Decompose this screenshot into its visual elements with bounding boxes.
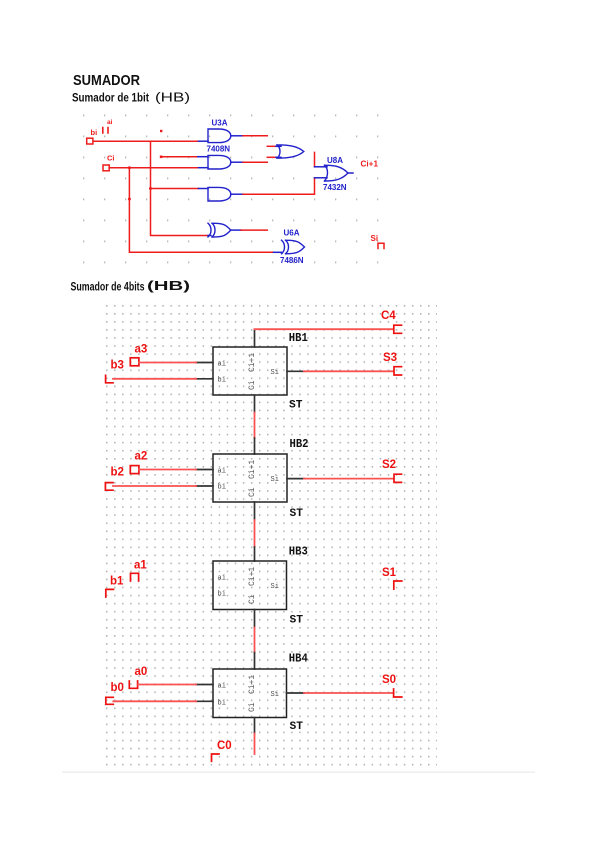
wire b0 [113,700,196,702]
svg-text:a1: a1 [134,560,147,572]
HB3 bottom stub [254,610,256,628]
OR gate middle [277,145,304,158]
wire gate4 output red [241,229,267,231]
wire gate4 output blue [231,229,241,231]
HB4 bottom stub [254,718,256,734]
svg-text:HB1: HB1 [289,331,308,345]
svg-text:ai: ai [218,361,226,369]
wire U8A top blue stub [315,166,328,168]
HB3 top stub [254,547,256,561]
connector b2 [105,483,113,491]
wire gate2 output red [243,161,267,163]
wire U3A output [231,135,243,137]
wire S2 [304,478,394,480]
wire U8A output stub [348,172,353,174]
svg-text:b2: b2 [111,467,124,479]
svg-text:C4: C4 [381,310,396,322]
connector Si [378,243,384,248]
svg-text:bi: bi [91,128,98,137]
HB4 block [213,669,287,718]
wire gate3 output red to U8A [243,178,315,194]
connector Ci [103,165,109,171]
svg-text:b3: b3 [111,360,124,372]
wire bi to U3A [94,140,199,142]
svg-text:Si: Si [271,583,279,591]
svg-text:Ci+1: Ci+1 [248,353,257,372]
HB4 top stub [254,653,256,670]
svg-text:ST: ST [290,721,304,733]
svg-text:S2: S2 [382,459,396,471]
svg-text:S1: S1 [382,567,397,579]
connector S2 [394,474,402,482]
XOR gate 4 [208,223,231,237]
svg-text:ai: ai [218,468,226,476]
HB1 b stub [196,378,213,380]
svg-text:Ci: Ci [248,380,257,390]
grid area schematic 2 [102,301,437,768]
HB1 Si stub [287,370,304,372]
connector ai [103,128,108,133]
wire HB2-HB3 [254,520,256,547]
HB4 Si stub [287,692,305,694]
svg-text:bi: bi [218,484,226,492]
connector S3 [394,367,402,375]
svg-text:Si: Si [271,476,279,484]
stray junction dot [160,130,162,132]
subtitle Sumador de 1bit (HB) [72,90,190,105]
wire gate3 output [231,193,243,195]
wire HB3-HB4 [254,628,256,653]
svg-text:b1: b1 [110,576,124,588]
horizontal rule bottom [62,772,535,773]
wire gate2 top blue stub [198,156,208,158]
svg-text:7432N: 7432N [323,183,347,192]
svg-text:Si: Si [371,234,379,243]
wire gate3 input blue stub [199,188,209,190]
svg-text:ai: ai [107,119,113,126]
svg-text:ST: ST [290,508,304,520]
AND gate 3 [208,187,231,201]
wire or-gate top input blue [276,145,281,147]
svg-text:bi: bi [218,700,226,708]
connector a2 [130,466,139,474]
wire Ci blue stub [199,167,209,169]
connector b3 [106,375,113,383]
wire below HB4 [254,734,256,755]
wire Ci vertical to U6A [129,168,273,253]
svg-text:C0: C0 [217,740,232,752]
svg-text:Ci+1: Ci+1 [248,460,257,479]
wire a2 [139,469,196,471]
svg-text:(HB): (HB) [147,278,190,293]
wire vertical branch x150 [151,141,209,235]
connector b1 [106,589,114,597]
wire Ci to gate2 [109,167,198,169]
wire gate2 output [231,161,243,163]
subtitle Sumador de 4bits (HB) [71,278,191,293]
wire U3A output red [243,135,267,137]
HB2 a stub [196,469,213,471]
connector C4 [394,325,402,333]
svg-text:Ci: Ci [248,594,257,604]
svg-text:S3: S3 [383,352,397,364]
wire C4 [255,328,394,330]
wire or-gate top input [267,145,276,147]
connector a3 [130,358,139,366]
wire into U8A top [314,152,316,166]
svg-text:ST: ST [290,615,304,627]
connector bi [87,138,93,144]
HB2 top stub [254,438,256,454]
junction Ci branch [128,166,131,169]
HB2 block [213,454,287,502]
wire U8A bottom blue stub [315,177,328,179]
wire S0 [304,692,394,694]
svg-text:Ci: Ci [248,702,257,712]
HB1 top pin stub [254,330,256,347]
wire a3 [139,362,196,364]
wire bi blue stub [199,140,209,142]
connector S0 [394,689,402,697]
svg-text:ai: ai [218,575,226,583]
svg-text:ai: ai [218,683,226,691]
OR gate U8A [325,165,349,181]
svg-text:U8A: U8A [327,156,343,165]
svg-text:U3A: U3A [212,119,228,128]
svg-text:SUMADOR: SUMADOR [73,72,140,89]
svg-text:Ci+1: Ci+1 [361,160,379,169]
junction at gate3 branch [149,187,152,190]
svg-text:Si: Si [271,691,279,699]
svg-text:a0: a0 [135,666,148,678]
svg-text:Ci: Ci [107,154,115,163]
svg-text:7486N: 7486N [280,256,304,265]
HB3 block [213,561,287,610]
connector S1 [394,581,402,589]
HB2 bottom stub [254,502,256,520]
svg-text:Sumador de 4bits: Sumador de 4bits [71,280,145,294]
wire S3 [304,370,394,372]
svg-text:S0: S0 [382,674,396,686]
connector a0 [129,681,137,688]
wire or-gate bottom input [267,156,276,158]
wire HB1-HB2 [254,413,256,439]
svg-text:Si: Si [271,369,279,377]
svg-text:bi: bi [218,377,226,385]
svg-text:7408N: 7408N [207,145,231,154]
wire to gate2 top input [161,156,198,158]
wire a0 [138,684,196,686]
wire b3 [113,378,196,380]
svg-text:Ci+1: Ci+1 [248,675,257,694]
wire or-gate bottom input blue [276,156,281,158]
HB1 block [213,347,287,395]
svg-text:b0: b0 [111,682,124,694]
junction on Ci vertical [128,198,131,201]
wire U6A input blue stub [274,251,282,253]
wire b2 [113,485,196,487]
grid area schematic 1 [82,113,386,271]
svg-text:HB4: HB4 [289,651,308,665]
AND gate U3A [208,129,231,143]
svg-text:HB2: HB2 [290,437,309,451]
connector a1 [131,573,139,581]
HB2 b stub [196,485,213,487]
svg-text:bi: bi [218,591,226,599]
HB1 a stub [196,362,213,364]
HB4 b stub [196,700,213,702]
connector C0 [212,754,220,761]
svg-text:Ci+1: Ci+1 [248,567,257,586]
svg-text:U6A: U6A [284,229,300,238]
wire branch to gate3 [151,188,199,190]
wire stub gate4 input blue [208,235,211,237]
svg-text:a3: a3 [135,344,148,356]
svg-text:Ci: Ci [248,487,257,497]
junction dot gate2 wire [160,156,163,159]
svg-text:a2: a2 [135,451,148,463]
svg-text:ST: ST [289,400,303,412]
svg-text:(HB): (HB) [155,90,190,105]
HB4 a stub [196,684,213,686]
AND gate 2 [208,155,231,169]
HB2 Si stub [287,478,304,480]
XOR gate U6A [282,240,305,254]
svg-text:HB3: HB3 [289,544,308,558]
svg-text:Sumador de 1bit: Sumador de 1bit [72,91,149,105]
connector b0 [106,697,114,704]
HB1 bottom stub [254,395,256,413]
